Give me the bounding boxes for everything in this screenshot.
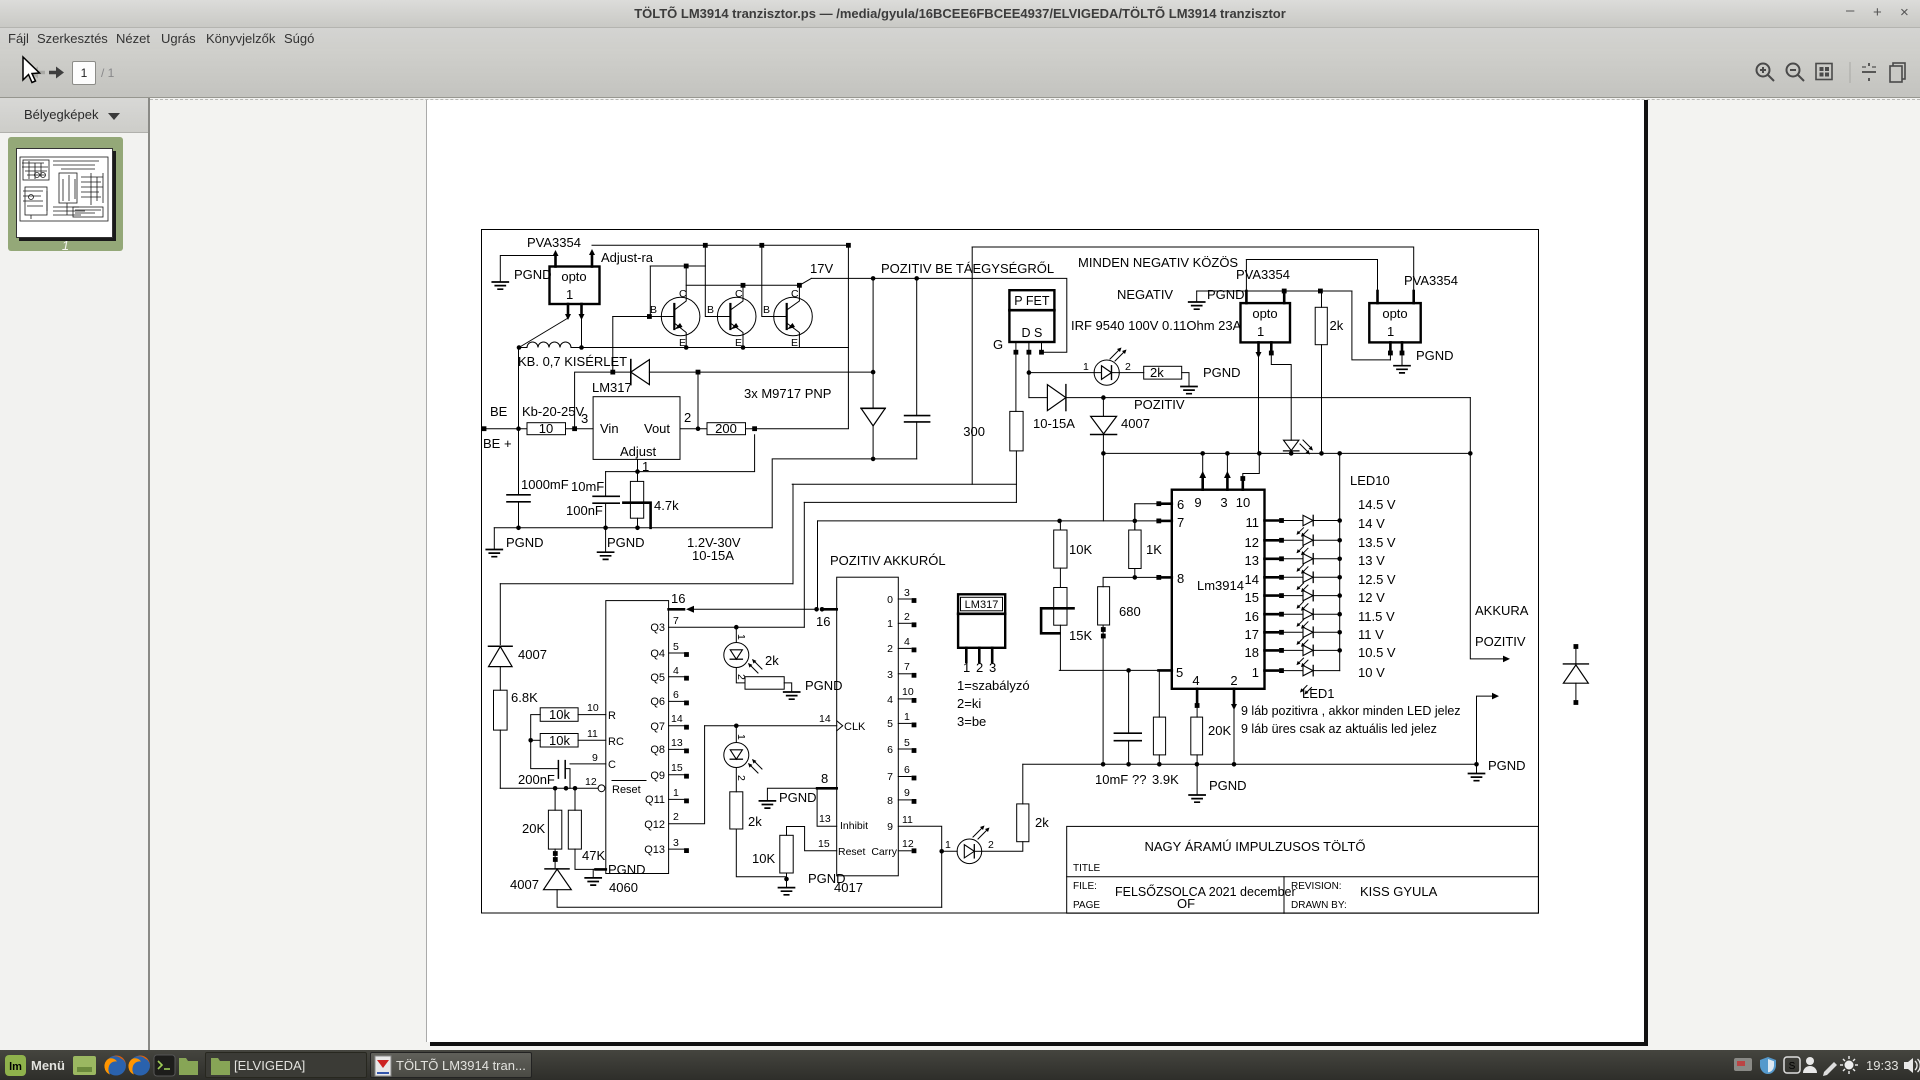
svg-text:Q5: Q5 [650,672,665,684]
wire 4017 pin9(11) to LED [898,826,941,907]
svg-text:17V: 17V [810,261,833,276]
opto U2 pin top-left [554,256,557,267]
svg-text:Q7: Q7 [650,721,665,733]
svg-text:20K: 20K [522,821,545,836]
svg-text:B: B [763,304,770,316]
svg-text:1=szabályzó: 1=szabályzó [957,678,1030,693]
svg-text:680: 680 [1119,604,1141,619]
common negative bus y=453.4 [1103,452,1470,454]
wire adjust feedback bus y=245.3 [592,245,848,428]
ground U6 PGND [1401,354,1403,366]
svg-text:1K: 1K [1146,542,1162,557]
svg-text:7: 7 [887,771,893,783]
svg-text:PGND: PGND [1203,365,1241,380]
svg-text:12 V: 12 V [1358,590,1385,605]
svg-text:6: 6 [1177,497,1184,512]
svg-text:PGND: PGND [1209,778,1247,793]
svg-text:POZITIV: POZITIV [1134,397,1185,412]
opto U6 pin bottom-left [1389,342,1392,352]
svg-text:PGND: PGND [514,267,552,282]
wire D1 anode to T1 base [612,317,614,373]
ground PGND (20K) [1196,764,1198,795]
wire rail riser from 4017 pin16 [817,521,819,609]
svg-text:10: 10 [1236,495,1250,510]
svg-text:2k: 2k [765,653,779,668]
svg-text:FELSŐZSOLCA 2021 december: FELSŐZSOLCA 2021 december [1115,884,1296,899]
svg-text:G: G [993,337,1003,352]
IC U8 4017 box [837,577,899,876]
svg-text:Kb-20-25V: Kb-20-25V [522,404,584,419]
svg-text:PGND: PGND [1207,287,1245,302]
firefox 2 [130,1056,150,1076]
svg-text:10: 10 [539,421,553,436]
wire G feedback horizontal y=484.3 [792,483,1016,485]
svg-text:14 V: 14 V [1358,516,1385,531]
wire Q3 riser to G-feedback [803,502,805,627]
svg-text:lm: lm [9,1061,22,1073]
svg-text:17: 17 [1245,627,1259,642]
svg-text:LM317: LM317 [592,380,632,395]
svg-text:P FET: P FET [1014,294,1050,308]
wire inter-opto link y=259.5 [1246,260,1377,292]
svg-text:PVA3354: PVA3354 [527,235,581,250]
wire G-feedback horizontal y=502.4 [804,501,1016,503]
LED bus vertical [1339,453,1341,670]
svg-text:BE: BE [490,404,508,419]
reset row wire [500,787,598,789]
svg-text:4060: 4060 [609,880,638,895]
svg-text:IRF 9540 100V 0.11Ohm 23A: IRF 9540 100V 0.11Ohm 23A [1071,318,1242,333]
P FET pin G [1015,342,1017,352]
resistor 680 [1098,587,1110,625]
PGND bus wire y=527.8 [494,527,772,529]
svg-text:200: 200 [715,421,737,436]
svg-text:2=ki: 2=ki [957,696,981,711]
svg-text:PVA3354: PVA3354 [1236,267,1290,282]
svg-text:15: 15 [818,838,830,850]
show desktop icon [73,1056,96,1075]
wire diagonal opto to inductor [519,318,568,348]
svg-text:4: 4 [673,665,679,677]
ground PGND mid [605,528,607,552]
wire 17V diagonal to POZITIV BE line [799,278,811,285]
svg-text:2: 2 [887,643,893,655]
svg-text:3: 3 [989,660,996,675]
LED D5 (series, down) [1284,440,1299,450]
regulator U1 LM317 box [593,397,680,460]
LED L2 (pin12, 13.5V) [1265,528,1342,546]
wire 2k to PGND [1182,373,1189,387]
opto U6 pin bottom-right [1401,342,1404,352]
svg-text:3: 3 [673,837,679,849]
svg-text:2: 2 [976,660,983,675]
svg-text:300: 300 [963,424,985,439]
wire 200 to output node [746,428,849,430]
svg-text:5: 5 [904,737,910,749]
resistor 10 [527,423,566,435]
capacitor 10mF (right) [1114,733,1141,741]
wire POZITIV rail [1066,397,1470,399]
negative bus y=764.3 [1023,763,1477,765]
P FET pin S [1041,342,1043,352]
PGND arrow wire [1477,696,1493,764]
LED L5 (pin15, 12V) [1265,583,1342,601]
svg-text:10k: 10k [549,733,570,748]
4017 pin8 stub [817,787,837,790]
svg-text:3: 3 [904,587,910,599]
svg-text:2: 2 [988,839,994,851]
svg-text:3: 3 [581,411,588,426]
xreader icon [375,1056,391,1076]
U4 pin 4 [1196,689,1199,703]
svg-text:1000mF: 1000mF [521,477,569,492]
svg-text:Reset: Reset [612,784,641,796]
wire D8 to bottom rail [557,890,942,908]
node output riser x=848.4 (squares) [846,243,851,248]
svg-text:LED10: LED10 [1350,473,1390,488]
resistor 4.7k (pot) [630,481,643,518]
U4 pin 2 [1233,689,1236,703]
wire T1 base drop [649,266,651,317]
svg-text:9 láb pozitivra , akkor minden: 9 láb pozitivra , akkor minden LED jelez [1241,704,1461,718]
svg-text:2: 2 [904,611,910,623]
svg-text:1: 1 [735,634,747,640]
resistor 300 [1010,411,1023,451]
U4 pin 5 [1059,669,1158,671]
tray: pencil [1823,1062,1837,1076]
svg-text:5: 5 [1176,665,1183,680]
resistor 10K (4017 reset) [780,835,793,873]
svg-text:8: 8 [887,795,893,807]
LED L4 (pin14, 12.5V) [1265,565,1342,583]
svg-text:1: 1 [1083,361,1089,373]
4060 pin16 stub [669,608,684,611]
wire D to LED D3 [1029,372,1094,374]
svg-text:opto: opto [1252,306,1277,321]
window title bar [0,0,1920,28]
opto U6 box (right) [1369,303,1420,342]
svg-text:1: 1 [735,734,747,740]
wire right block top bus [972,247,1413,291]
wire base link bus y=266 [650,265,705,267]
wire Vout to 200 [680,428,707,430]
svg-text:10 V: 10 V [1358,665,1385,680]
svg-text:Q8: Q8 [650,744,665,756]
emitter bus wire [571,347,848,349]
wire G to 300 [1015,352,1017,411]
wire BE input [484,428,528,430]
LED D3 emission arrows [1110,350,1124,361]
tray: user [1806,1057,1814,1065]
svg-text:10-15A: 10-15A [1033,416,1075,431]
svg-text:Q3: Q3 [650,622,665,634]
LED D10 (on CLK) [724,726,762,781]
ground PGND (top-left) [492,282,508,289]
svg-text:9 láb üres csak az aktuális le: 9 láb üres csak az aktuális led jelez [1241,722,1437,736]
opto U2 pin top-right (Adjust-ra) [591,256,594,267]
svg-text:1: 1 [904,711,910,723]
svg-text:200nF: 200nF [518,772,555,787]
svg-text:1: 1 [1257,324,1264,339]
LED L9 (pin1, 10V) [1265,658,1340,694]
svg-text:6: 6 [887,744,893,756]
opto U2 pin bottom-left [567,304,570,314]
svg-text:E: E [679,337,686,349]
firefox 1 [106,1056,126,1076]
svg-text:PGND: PGND [607,535,645,550]
svg-text:C: C [791,288,799,300]
svg-text:10K: 10K [752,851,775,866]
svg-text:??: ?? [1132,772,1146,787]
svg-text:POZITIV AKKURÓL: POZITIV AKKURÓL [830,553,946,568]
svg-text:E: E [791,337,798,349]
svg-text:100nF: 100nF [566,503,603,518]
wire Adjust down [637,459,639,481]
svg-text:9: 9 [887,821,893,833]
schematic outer border frame [482,230,1539,914]
svg-text:2: 2 [1230,673,1237,688]
opto U3 pin bottom-left [1257,342,1260,352]
resistor 20K (left) [548,810,561,849]
wire collector bus y=285.3 [686,284,799,286]
svg-text:1: 1 [963,660,970,675]
svg-text:C: C [679,288,687,300]
IC U4 LM3914 box [1172,490,1265,689]
svg-text:C: C [608,759,616,771]
P FET pin D [1028,342,1030,352]
ground PGND hook [1196,291,1198,302]
svg-text:10-15A: 10-15A [692,548,734,563]
svg-text:16: 16 [671,591,685,606]
resistor 3.9K [1153,717,1165,755]
LED L1 (pin11, 14V) [1265,515,1342,525]
svg-text:1: 1 [887,618,893,630]
transistor Q4 P FET box [1009,290,1054,342]
svg-text:Inhibit: Inhibit [840,820,868,832]
svg-text:LM317: LM317 [965,599,999,611]
svg-text:10: 10 [587,702,599,714]
wire PGND bus up-right (to diode/cap bottoms) [772,459,917,528]
svg-text:KISS GYULA: KISS GYULA [1360,884,1438,899]
opto U6 pin top-right [1412,291,1415,303]
svg-text:7: 7 [904,661,910,673]
wire D1 to Vin node [575,372,613,429]
potentiometer 2k (D9) [736,668,745,683]
svg-text:16: 16 [1245,609,1259,624]
svg-text:14: 14 [1245,572,1259,587]
svg-text:opto: opto [1382,306,1407,321]
4017 right pin rows [871,587,916,858]
wire 300 bottom to G-feedback [1015,451,1017,503]
wire LED to 2k [982,842,1023,852]
svg-text:B: B [707,304,714,316]
LED D9 (on Q3) [724,627,779,680]
wire U3 pin4 down to bus [1258,355,1260,453]
mouse cursor [23,57,40,83]
svg-text:13: 13 [671,737,683,749]
LED D11 (bottom) [942,850,958,852]
wire mid rail y=520.9 [818,520,1160,522]
svg-text:1: 1 [1252,665,1259,680]
svg-text:11: 11 [902,814,913,826]
opto U2 box [550,267,600,305]
wire opto right pin down [581,318,583,348]
resistor 2k (D3 series) [1144,366,1182,379]
IC U7 4060 box [606,601,669,874]
LED D11 emission arrows [973,828,987,839]
wire supply drop left [499,584,501,645]
diode D3b 10-15A [1029,397,1048,399]
wire supply to 16 pins [500,583,793,585]
svg-text:Adjust: Adjust [620,444,657,459]
U4 pin 6 [1161,502,1172,505]
diode D6 (outside border) [1574,644,1579,649]
wire opto top rail y=291 [1197,290,1352,292]
mint menu logo [5,1055,26,1076]
svg-text:Q13: Q13 [644,844,665,856]
svg-text:4: 4 [887,694,893,706]
transistor Q1 (M9717) [649,266,699,349]
svg-text:PGND: PGND [608,862,646,877]
svg-text:1: 1 [1387,324,1394,339]
resistor 10k (RC) [540,734,578,748]
svg-text:5: 5 [887,718,893,730]
svg-text:14: 14 [671,713,683,725]
svg-text:13: 13 [819,813,831,825]
svg-text:8: 8 [821,771,828,786]
svg-text:RC: RC [608,736,624,748]
svg-text:opto: opto [561,269,586,284]
capacitor 200nF [531,740,559,768]
wire BE+ rail down [518,348,520,429]
svg-text:11: 11 [587,728,598,740]
svg-text:R: R [608,710,616,722]
wire 2k top [1321,291,1323,307]
U4 pin 7 [1161,520,1172,523]
svg-text:11 V: 11 V [1358,627,1384,642]
svg-text:3: 3 [887,669,893,681]
svg-text:2k: 2k [1150,365,1164,380]
svg-text:3x M9717 PNP: 3x M9717 PNP [744,386,831,401]
wire U3 pin3 to series LED D5 [1271,354,1291,440]
resistor 10k (R) [540,708,578,722]
zoom in icon [1757,64,1775,82]
svg-text:6.8K: 6.8K [511,690,538,705]
svg-text:12: 12 [902,838,914,850]
svg-text:1: 1 [566,287,573,302]
svg-text:Vin: Vin [600,421,619,436]
svg-text:BE +: BE + [483,436,512,451]
svg-text:1: 1 [945,839,951,851]
svg-text:14: 14 [819,713,831,725]
diode D2 (big, down) [861,407,885,409]
svg-text:Q11: Q11 [645,794,665,806]
svg-text:D S: D S [1021,326,1042,340]
svg-text:NAGY ÁRAMÚ IMPULZUSOS TÖLTŐ: NAGY ÁRAMÚ IMPULZUSOS TÖLTŐ [1144,839,1365,854]
svg-text:9: 9 [592,752,598,764]
U4 pin 10 wire [1243,453,1260,477]
svg-text:11.5 V: 11.5 V [1358,609,1395,624]
terminal icon [154,1055,175,1076]
taskbar [0,1050,1920,1080]
svg-text:10: 10 [902,686,914,698]
wire T2 base riser [705,245,711,316]
svg-text:2: 2 [1125,361,1131,373]
wire opto rail to U6 pin4 [1352,291,1391,360]
svg-text:4007: 4007 [1121,416,1150,431]
opto U2 pin bottom-right [580,304,583,314]
svg-text:Q12: Q12 [644,819,665,831]
wire 20K to diode D8 [554,849,556,868]
LED L6 (pin16, 11.5V) [1265,602,1342,620]
svg-text:Carry: Carry [871,846,897,858]
resistor 6.8K [494,690,508,730]
fit icon [1816,64,1832,80]
svg-text:E: E [735,337,742,349]
svg-text:TITLE: TITLE [1073,863,1101,874]
svg-text:2k: 2k [1035,815,1049,830]
svg-text:3.9K: 3.9K [1152,772,1179,787]
svg-text:3=be: 3=be [957,714,986,729]
tray: shield [1760,1057,1776,1074]
resistor 200 [707,423,746,435]
U4 pin 9 wire [1202,453,1204,473]
wire POZITIV BE TAEGYSEGROL y=278.4 [811,278,1067,352]
svg-text:10mF: 10mF [1095,772,1128,787]
svg-text:15K: 15K [1069,628,1092,643]
diode D1 [613,371,631,373]
opto U3 pin bottom-right [1270,342,1273,352]
inductor L1 [527,342,571,348]
svg-text:2k: 2k [1330,318,1344,333]
menu bar [0,28,1920,49]
LED L7 (pin17, 11V) [1265,620,1342,638]
LED L8 (pin18, 10.5V) [1265,638,1342,656]
svg-text:14.5 V: 14.5 V [1358,497,1396,512]
svg-text:Adjust-ra: Adjust-ra [601,250,654,265]
svg-text:2k: 2k [748,814,762,829]
opto U3 pin top-right [1283,291,1286,303]
reset bubble [598,785,605,792]
wire Vout node riser [697,372,699,429]
toolbar [0,49,1920,98]
tray: speaker [1904,1058,1913,1073]
U4 pin 3 wire [1226,453,1228,473]
svg-text:6: 6 [673,689,679,701]
svg-text:5: 5 [673,641,679,653]
svg-text:4.7k: 4.7k [654,498,679,513]
4017 pin13 Inhibit [817,790,837,826]
svg-text:PGND: PGND [1416,348,1454,363]
sidebar [0,98,148,1050]
svg-text:7: 7 [1177,515,1184,530]
svg-text:8: 8 [1177,571,1184,586]
svg-text:Lm3914: Lm3914 [1197,578,1244,593]
svg-text:10k: 10k [549,707,570,722]
svg-text:0: 0 [887,594,893,606]
svg-text:12.5 V: 12.5 V [1358,572,1396,587]
svg-text:15: 15 [1245,590,1259,605]
wire right block left edge drop [971,247,973,484]
svg-text:47K: 47K [582,848,605,863]
svg-text:AKKURA: AKKURA [1475,603,1529,618]
svg-text:Q6: Q6 [650,696,665,708]
svg-text:Reset: Reset [838,846,866,858]
svg-text:9: 9 [904,787,910,799]
svg-text:18: 18 [1245,645,1259,660]
C row wire [570,763,606,765]
svg-text:4: 4 [904,636,910,648]
